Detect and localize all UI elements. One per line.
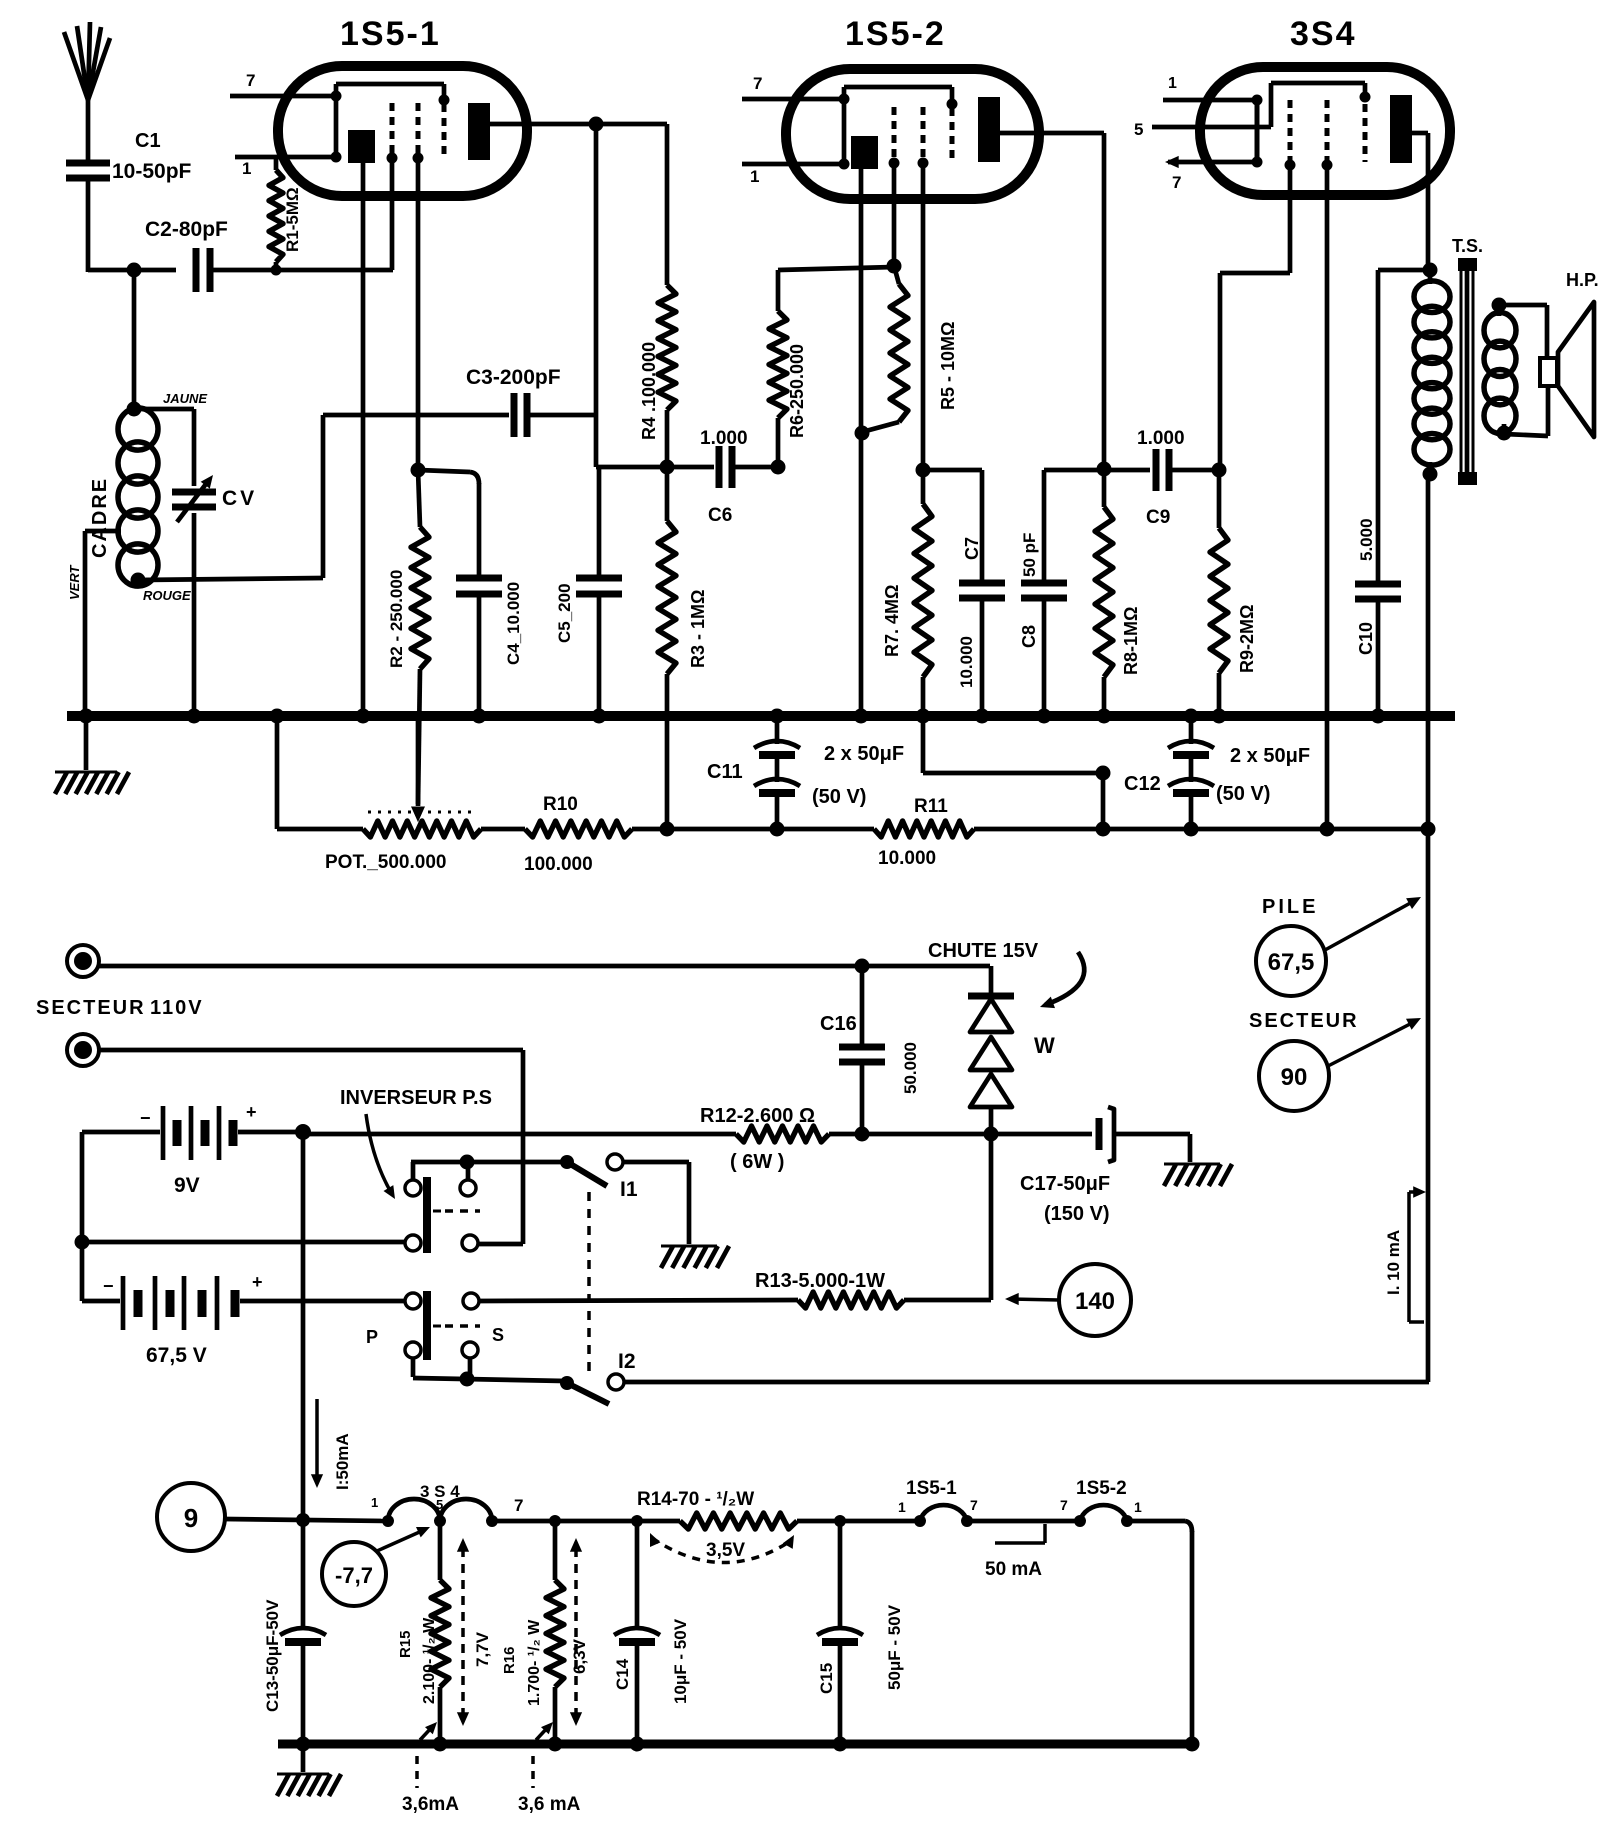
svg-text:C4_10.000: C4_10.000 — [504, 582, 523, 665]
node 9V plus — [295, 1124, 311, 1140]
capacitor C17-50uF — [991, 1107, 1190, 1225]
svg-text:50 mA: 50 mA — [985, 1559, 1042, 1580]
tube U3 3S4 envelope — [1200, 15, 1450, 195]
svg-text:1: 1 — [750, 167, 759, 186]
tube U6 1S5-2 filament — [1060, 1478, 1142, 1527]
svg-text:(50 V): (50 V) — [1216, 783, 1270, 805]
wire C3 out — [527, 415, 596, 467]
wire U3 grid jog — [1220, 165, 1290, 470]
svg-text:2.100- ¹/₂ W: 2.100- ¹/₂ W — [421, 1617, 438, 1704]
wire U2 filament down — [859, 169, 864, 716]
wire filament return — [1127, 1521, 1192, 1744]
svg-text:7: 7 — [514, 1496, 523, 1515]
switch S1 pole 2 P-S — [366, 1291, 504, 1360]
transformer T.S. primary — [1414, 236, 1483, 482]
svg-text:1: 1 — [242, 159, 251, 178]
wire R7 jog — [923, 722, 1111, 829]
node R4 bottom — [660, 460, 675, 475]
svg-text:H.P.: H.P. — [1566, 270, 1599, 290]
svg-text:10μF - 50V: 10μF - 50V — [671, 1618, 690, 1704]
battery 9V — [82, 1102, 303, 1197]
svg-text:W: W — [1034, 1033, 1055, 1058]
svg-text:1S5-1: 1S5-1 — [340, 15, 441, 53]
fil bus node C14 — [630, 1737, 645, 1752]
tube U3 grid 2 — [1322, 100, 1333, 171]
node U1 plate junction — [589, 117, 604, 132]
svg-text:S: S — [492, 1325, 504, 1345]
tube U2 internal connector — [839, 87, 958, 170]
svg-text:67,5: 67,5 — [1268, 949, 1315, 976]
node rail R3 — [660, 822, 675, 837]
resistor R14-70 — [637, 1489, 840, 1529]
bus node pot feed — [270, 709, 285, 724]
wire U3 screen down — [1325, 165, 1330, 829]
label 3.6mA right — [518, 1722, 581, 1815]
ground chassis bottom — [277, 1744, 341, 1796]
wire rail right — [974, 827, 1428, 832]
svg-text:C3-200pF: C3-200pF — [466, 366, 561, 389]
terminal SECTEUR line 1 — [67, 945, 99, 977]
ground chassis left — [55, 716, 129, 794]
svg-text:R8-1MΩ: R8-1MΩ — [1121, 607, 1141, 675]
current tap 50mA — [985, 1524, 1045, 1580]
bus node R8 — [1097, 709, 1112, 724]
node C16 bottom — [855, 1127, 870, 1142]
svg-text:10-50pF: 10-50pF — [112, 160, 192, 183]
svg-text:R15: R15 — [397, 1630, 414, 1658]
svg-text:R9-2MΩ: R9-2MΩ — [1237, 605, 1257, 673]
tube U3 grid 1 — [1285, 100, 1296, 171]
wire detector node — [1044, 468, 1150, 473]
svg-text:−: − — [140, 1108, 151, 1128]
wire secteur 2 — [99, 1050, 523, 1244]
fil bus node R16 — [548, 1737, 563, 1752]
svg-text:C17-50μF: C17-50μF — [1020, 1173, 1110, 1195]
svg-text:10.000: 10.000 — [957, 636, 976, 688]
resistor R12-2.600 — [700, 1105, 991, 1173]
label 3.6mA left — [402, 1722, 459, 1815]
tube U1 plate — [468, 103, 527, 160]
ground C17 — [1164, 1164, 1232, 1186]
capacitor C16 50.000 — [820, 966, 920, 1134]
resistor R8-1M — [1095, 469, 1141, 716]
svg-text:C2-80pF: C2-80pF — [145, 218, 228, 241]
svg-text:+: + — [252, 1272, 263, 1292]
bus node CV — [187, 709, 202, 724]
svg-text:JAUNE: JAUNE — [163, 391, 207, 406]
bus node C5 — [592, 709, 607, 724]
wire plate drop to C3 — [594, 124, 599, 415]
node C16 top — [855, 959, 870, 974]
svg-text:1: 1 — [1134, 1499, 1142, 1515]
resistor R4 100.000 — [639, 124, 676, 467]
ground I1 — [661, 1246, 729, 1268]
bus node U2 filament — [854, 709, 869, 724]
svg-text:R7. 4MΩ: R7. 4MΩ — [882, 585, 902, 657]
svg-text:R5 - 10MΩ: R5 - 10MΩ — [938, 322, 958, 410]
wire battery drop — [301, 1132, 306, 1519]
fil bus node R15 — [433, 1737, 448, 1752]
svg-text:C6: C6 — [708, 505, 732, 526]
svg-text:CV: CV — [222, 487, 257, 510]
svg-text:R6-250.000: R6-250.000 — [787, 344, 807, 438]
wire U3 plate down — [1426, 133, 1431, 270]
circle 9 node — [157, 1483, 225, 1551]
resistor R5-10M — [862, 266, 958, 432]
svg-text:INVERSEUR P.S: INVERSEUR P.S — [340, 1087, 492, 1109]
tube U3 plate — [1390, 95, 1428, 163]
label SECTEUR right — [1249, 1010, 1359, 1032]
bus node C10 — [1371, 709, 1386, 724]
svg-text:C1: C1 — [135, 130, 161, 152]
dashed link I1 I2 — [587, 1192, 591, 1374]
svg-text:50.000: 50.000 — [901, 1042, 920, 1094]
svg-text:5: 5 — [436, 1497, 443, 1512]
wire rail mid — [632, 827, 874, 832]
capacitor C5_200 — [555, 467, 622, 716]
svg-text:3,6mA: 3,6mA — [402, 1794, 459, 1815]
node antenna junction — [127, 263, 142, 278]
svg-text:7: 7 — [753, 74, 762, 93]
capacitor C6 1.000 — [700, 428, 778, 526]
capacitor C8 50pF — [1019, 470, 1067, 716]
diode stack W CHUTE 15V — [928, 940, 1084, 1134]
svg-text:R16: R16 — [501, 1646, 518, 1674]
tube U1 grid 3 — [442, 104, 447, 158]
terminal SECTEUR line 2 — [67, 1034, 99, 1066]
svg-text:POT._500.000: POT._500.000 — [325, 852, 446, 873]
label PILE — [1262, 896, 1318, 918]
battery 67.5V — [82, 1272, 405, 1367]
bus node C7 — [975, 709, 990, 724]
tube U3 pin 1 lead — [1163, 75, 1257, 100]
potentiometer POT 500.000 — [325, 812, 481, 873]
wire battery minus — [75, 1132, 406, 1301]
svg-text:P: P — [366, 1327, 378, 1347]
capacitor C11 2x50uF — [707, 716, 904, 829]
svg-text:140: 140 — [1075, 1288, 1115, 1315]
tube U3 grid 3 — [1363, 104, 1368, 162]
svg-text:( 6W ): ( 6W ) — [730, 1151, 784, 1173]
svg-text:I:50mA: I:50mA — [333, 1433, 352, 1490]
resistor R10 100.000 — [481, 794, 632, 875]
wire 9V rail — [303, 1132, 736, 1137]
svg-text:1S5-1: 1S5-1 — [906, 1478, 957, 1499]
wire U1 grid2 down — [390, 158, 395, 270]
node JAUNE — [127, 391, 208, 417]
node rail C12 — [1184, 822, 1199, 837]
resistor R11 10.000 — [874, 796, 974, 869]
tube U2 grid 2 — [918, 107, 929, 169]
tube U2 pin 1 lead — [742, 164, 844, 186]
svg-text:9: 9 — [184, 1503, 198, 1533]
svg-text:100.000: 100.000 — [524, 854, 593, 875]
bus node R7 — [916, 709, 931, 724]
node R5 R6 grid — [887, 259, 902, 274]
bus node U1 filament — [356, 709, 371, 724]
bus node VERT — [79, 709, 94, 724]
tube U1 pin 1 lead — [235, 157, 336, 178]
capacitor C4 10.000 — [456, 578, 523, 716]
wire pole1 top — [411, 1155, 565, 1170]
tube U2 filament — [851, 136, 878, 169]
svg-text:C8: C8 — [1019, 625, 1039, 648]
svg-text:7,7V: 7,7V — [473, 1631, 492, 1667]
svg-text:7: 7 — [246, 71, 255, 90]
node R5 bottom — [855, 426, 870, 441]
svg-text:2 x 50μF: 2 x 50μF — [824, 743, 904, 765]
resistor R9-2M — [1210, 470, 1257, 716]
voltage arc 3.5V — [650, 1533, 794, 1563]
wire ROUGE to C3 riser — [138, 415, 509, 580]
svg-text:C13-50μF-50V: C13-50μF-50V — [263, 1599, 282, 1712]
switch I2 — [560, 1350, 1429, 1404]
capacitor C12 2x50uF — [1124, 716, 1310, 829]
node ROUGE — [131, 573, 192, 604]
svg-text:R13-5.000-1W: R13-5.000-1W — [755, 1270, 885, 1292]
bus node R9 — [1212, 709, 1227, 724]
current arrow I 10mA — [1384, 1186, 1426, 1322]
svg-text:I2: I2 — [618, 1350, 636, 1373]
svg-text:(50 V): (50 V) — [812, 786, 866, 808]
svg-text:1: 1 — [1168, 75, 1177, 92]
antenna — [64, 22, 110, 160]
svg-text:50 pF: 50 pF — [1020, 533, 1039, 577]
switch S1 pole 1 — [405, 1162, 480, 1253]
svg-text:3,6 mA: 3,6 mA — [518, 1794, 581, 1815]
svg-text:6,3V: 6,3V — [570, 1638, 589, 1674]
capacitor C9 1.000 — [1137, 428, 1219, 528]
node C13 top — [296, 1513, 310, 1527]
svg-text:ROUGE: ROUGE — [143, 588, 191, 603]
svg-text:2 x 50μF: 2 x 50μF — [1230, 745, 1310, 767]
svg-text:9V: 9V — [174, 1174, 200, 1197]
circle 140 node — [1005, 1264, 1131, 1336]
svg-text:C16: C16 — [820, 1013, 857, 1035]
svg-text:3S4: 3S4 — [1290, 15, 1357, 53]
svg-text:C10: C10 — [1356, 622, 1376, 655]
wire R2 drop to C4 — [418, 470, 479, 578]
svg-text:R4 .100.000: R4 .100.000 — [639, 342, 659, 440]
svg-text:I1: I1 — [620, 1178, 638, 1201]
capacitor C7 10.000 — [923, 470, 1005, 716]
wire U2 plate drop — [1039, 133, 1104, 469]
svg-text:1: 1 — [371, 1495, 378, 1510]
tube U2 grid 1 — [889, 107, 900, 169]
svg-text:C9: C9 — [1146, 507, 1170, 528]
current arrow I 50mA — [311, 1399, 352, 1490]
tube U2 1S5-2 envelope — [786, 15, 1039, 199]
wire B line — [1426, 474, 1431, 1382]
node C6 out — [771, 460, 786, 475]
svg-text:5.000: 5.000 — [1357, 518, 1376, 561]
tube U1 grid 1 — [387, 103, 398, 164]
node diode bottom — [984, 1127, 999, 1142]
wire filament mid — [492, 1519, 680, 1524]
inductor CADRE loop antenna — [89, 408, 158, 586]
ground bus — [67, 711, 1455, 721]
tube U3 internal bar — [1252, 95, 1263, 168]
wire filament right — [967, 1519, 1080, 1524]
wire pot feed — [277, 716, 363, 829]
filament ground bus — [278, 1740, 1197, 1749]
wire C5 node — [596, 465, 714, 470]
node U2 plate — [1097, 462, 1112, 477]
tube U3 pin 7 lead — [1165, 156, 1257, 192]
svg-text:110V: 110V — [150, 997, 204, 1019]
node rail C11 — [770, 822, 785, 837]
circle SECTEUR 90 — [1259, 1018, 1421, 1111]
svg-text:C14: C14 — [613, 1658, 632, 1690]
wire U2 grid3 down — [921, 163, 926, 470]
bus node C12 — [1184, 709, 1199, 724]
capacitor C13-50uF-50V — [263, 1520, 326, 1744]
svg-text:7: 7 — [1060, 1497, 1068, 1513]
svg-text:PILE: PILE — [1262, 896, 1318, 918]
svg-text:90: 90 — [1281, 1064, 1308, 1091]
svg-text:R10: R10 — [543, 794, 578, 815]
svg-text:7: 7 — [1172, 173, 1181, 192]
circle PILE 67.5 — [1256, 897, 1421, 996]
bus node C4 — [472, 709, 487, 724]
svg-text:SECTEUR: SECTEUR — [1249, 1010, 1359, 1032]
svg-text:7: 7 — [970, 1497, 978, 1513]
tube U2 grid 3 — [950, 108, 955, 162]
wire VERT tap — [67, 531, 121, 716]
wire U1 plate to R4 — [527, 122, 667, 127]
switch I1 — [560, 1154, 689, 1244]
svg-text:5: 5 — [1134, 120, 1143, 139]
svg-text:SECTEUR: SECTEUR — [36, 997, 146, 1019]
tube U5 1S5-1 filament — [840, 1478, 978, 1527]
svg-text:1.000: 1.000 — [700, 428, 748, 449]
wire U1 grid3 down — [416, 158, 421, 470]
svg-text:10.000: 10.000 — [878, 848, 936, 869]
node rail U3 — [1320, 822, 1335, 837]
svg-text:C7: C7 — [962, 537, 982, 560]
variable capacitor CV — [134, 409, 257, 716]
node R7 top — [916, 463, 931, 478]
svg-text:T.S.: T.S. — [1452, 236, 1483, 256]
tube U1 internal connector — [331, 84, 450, 163]
resistor R1-5M — [269, 157, 302, 276]
tube U1 grid 2 — [413, 103, 424, 164]
svg-text:50μF - 50V: 50μF - 50V — [885, 1604, 904, 1690]
svg-text:C5_200: C5_200 — [555, 583, 574, 643]
svg-text:(150 V): (150 V) — [1044, 1203, 1110, 1225]
svg-text:I. 10 mA: I. 10 mA — [1384, 1230, 1403, 1295]
bus node C8 — [1037, 709, 1052, 724]
svg-text:VERT: VERT — [67, 565, 82, 600]
resistor R13-5.000-1W — [755, 1270, 991, 1308]
svg-text:CADRE: CADRE — [89, 477, 111, 558]
resistor R3-1M — [658, 467, 708, 829]
wire antenna to C2 — [88, 268, 176, 273]
svg-text:CHUTE 15V: CHUTE 15V — [928, 940, 1039, 962]
resistor R6-250.000 — [769, 267, 894, 467]
capacitor C2 80pF — [145, 218, 393, 292]
svg-text:1S5-2: 1S5-2 — [845, 15, 946, 53]
node R9 grid — [1212, 463, 1227, 478]
transformer T.S. secondary — [1484, 298, 1516, 441]
transformer T.S. core — [1458, 258, 1477, 485]
pot wiper arrow — [411, 720, 425, 822]
svg-text:R2 - 250.000: R2 - 250.000 — [387, 570, 406, 668]
wire pole2 bottom — [413, 1358, 565, 1387]
resistor R7 4M — [882, 470, 932, 716]
resistor R15 2.100 — [397, 1521, 449, 1744]
svg-text:67,5 V: 67,5 V — [146, 1344, 207, 1367]
svg-text:1: 1 — [898, 1499, 906, 1515]
wire U1 filament down — [361, 163, 366, 716]
fil bus node C13 — [296, 1737, 311, 1752]
svg-text:−: − — [103, 1276, 114, 1296]
label INVERSEUR P.S — [340, 1087, 492, 1199]
svg-text:R14-70 - ¹/₂W: R14-70 - ¹/₂W — [637, 1489, 754, 1510]
svg-text:R3 - 1MΩ: R3 - 1MΩ — [688, 590, 708, 668]
wire C10 to TS — [1378, 268, 1428, 273]
capacitor C15 50uF — [817, 1515, 904, 1744]
wire R13 line — [479, 1300, 798, 1301]
svg-text:+: + — [246, 1102, 257, 1122]
svg-text:C15: C15 — [817, 1663, 836, 1694]
svg-text:R1-5MΩ: R1-5MΩ — [283, 187, 302, 252]
capacitor C14 10uF — [613, 1515, 690, 1744]
capacitor C1 10-50pF — [66, 130, 192, 272]
resistor R2 250.000 — [387, 470, 429, 822]
tube U1 pin 7 lead — [230, 71, 336, 96]
svg-text:C11: C11 — [707, 761, 743, 783]
tube U2 pin 7 lead — [742, 74, 844, 99]
tube U2 plate — [978, 97, 1039, 162]
svg-text:R11: R11 — [914, 796, 948, 817]
svg-text:1S5-2: 1S5-2 — [1076, 1478, 1127, 1499]
svg-text:-7,7: -7,7 — [335, 1563, 373, 1588]
tube U3 internal connector — [1257, 83, 1371, 127]
svg-text:1.700- ¹/₂ W: 1.700- ¹/₂ W — [526, 1619, 543, 1706]
node R2 C4 — [411, 463, 426, 478]
fil bus node C15 — [833, 1737, 848, 1752]
svg-text:R12-2.600 Ω: R12-2.600 Ω — [700, 1105, 815, 1127]
wire U2 grid down — [892, 163, 897, 266]
resistor R16 1.700 — [501, 1515, 564, 1744]
wire diode drop — [989, 1134, 994, 1300]
coil CADRE feed wire — [132, 270, 137, 409]
circle -7.7 node — [322, 1527, 430, 1606]
fil bus node return — [1185, 1737, 1200, 1752]
voltage arrow 6.3V — [570, 1538, 589, 1726]
capacitor C3-200pF — [466, 366, 561, 437]
label SECTEUR 110V — [36, 997, 204, 1019]
speaker H.P. — [1499, 270, 1599, 437]
wire 9 to filament — [225, 1519, 388, 1521]
node rail B line — [1421, 822, 1436, 837]
node rail jog — [1096, 822, 1111, 837]
tube U1 1S5-1 envelope — [278, 15, 527, 196]
svg-text:3,5V: 3,5V — [706, 1540, 745, 1561]
tube U4 3S4 filament — [371, 1482, 523, 1527]
tube U1 filament — [348, 130, 375, 163]
capacitor C10 5.000 — [1355, 270, 1401, 716]
wire secteur top — [99, 964, 990, 969]
tube U3 pin 5 lead — [1134, 120, 1257, 139]
svg-text:C12: C12 — [1124, 773, 1161, 795]
bus node C11 — [770, 709, 785, 724]
svg-text:1.000: 1.000 — [1137, 428, 1185, 449]
voltage arrow 7.7V — [457, 1538, 492, 1726]
